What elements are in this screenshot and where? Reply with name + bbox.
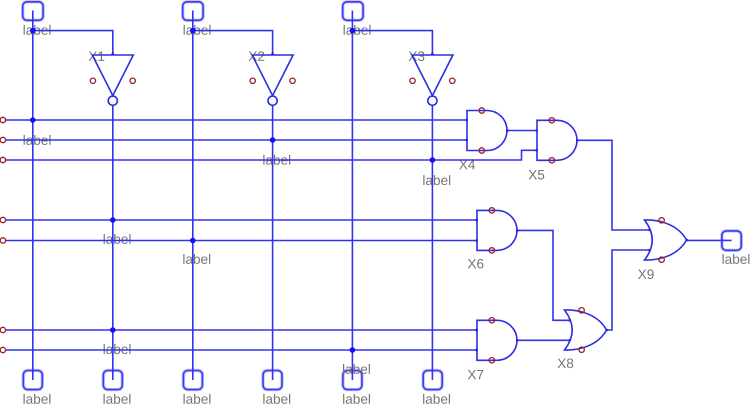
left input port circle row 3 <box>0 157 5 162</box>
pin nub X6 out <box>516 229 519 232</box>
AND gate X6 <box>477 208 517 253</box>
wire row 5 to X6 input B <box>5 240 477 242</box>
wire rail X2 output to bottom square 4 <box>272 106 274 381</box>
label text rail3 net <box>343 364 370 374</box>
junction node row4-X1out <box>110 217 116 223</box>
OR gate X8 <box>565 308 607 353</box>
pin nub X5 in A <box>535 129 538 132</box>
wire rail X3 output to bottom square 6 <box>431 106 433 381</box>
output pin square bottom 5 <box>343 371 362 390</box>
junction node row1-rail1 <box>30 117 36 123</box>
designator X4 <box>459 160 475 169</box>
input pin square top 3 <box>343 2 363 21</box>
left input port circle row 5 <box>0 238 5 243</box>
left input port circle row 6 <box>0 327 5 332</box>
wire rail X1 output to bottom square 2 <box>112 106 114 381</box>
label text row 7 net <box>104 344 131 354</box>
wire row 3 jog to X5 input B <box>5 150 537 160</box>
pin nub X5 in B <box>535 149 538 152</box>
input pin square top 1 <box>23 2 43 21</box>
pin nub X6 in A <box>475 219 478 222</box>
pin nub X9 in A <box>648 229 651 232</box>
pin nub X7 out <box>516 339 519 342</box>
pin nub X8 in A <box>568 319 571 322</box>
designator X9 <box>638 269 654 279</box>
output pin square bottom 1 <box>23 371 42 390</box>
pin nub X8 out <box>606 329 609 332</box>
inverter X1 <box>90 55 135 105</box>
label text bottom pin 2 <box>104 394 131 404</box>
pin nub X5 out <box>576 139 579 142</box>
pin nub X3 in <box>431 53 434 56</box>
designator X5 <box>529 170 545 179</box>
junction node top branch 3 <box>350 28 356 34</box>
pin nub X6 in B <box>475 239 478 242</box>
input pin square top 2 <box>183 2 203 21</box>
pin nub X4 in A <box>465 119 468 122</box>
label text top pin 1 <box>24 25 51 35</box>
wire X5 output to X9 input A <box>577 140 650 230</box>
label text output pin right <box>723 254 750 264</box>
junction node row6-X1out <box>110 327 116 333</box>
label text bottom pin 3 <box>184 394 211 404</box>
wire row 7 to X7 input B <box>5 349 477 351</box>
pin nub X2 in <box>271 53 274 56</box>
designator X1 <box>89 52 105 61</box>
output pin square bottom 6 <box>423 371 442 390</box>
junction node row7-rail3 <box>350 347 356 353</box>
wire row 1 to X4 input A <box>5 119 467 121</box>
label text row 3 net <box>263 155 290 165</box>
wire row 6 to X7 input A <box>5 329 477 331</box>
wire X6 output to X8 input A <box>517 230 570 320</box>
junction node row3-X3out <box>430 157 436 163</box>
label text bottom pin 5 <box>343 394 370 404</box>
junction node row2-X2out <box>270 137 276 143</box>
left input port circle row 7 <box>0 347 5 352</box>
AND gate X7 <box>477 318 517 363</box>
left input port circle row 2 <box>0 137 5 142</box>
junction node row5-rail2 <box>190 238 196 244</box>
left input port circle row 4 <box>0 217 5 222</box>
pin nub X9 out <box>686 239 689 242</box>
label text row 2 net <box>24 135 51 145</box>
wire rail from top pin 2 to bottom square 3 <box>192 11 194 381</box>
output pin square bottom 3 <box>183 371 202 390</box>
pin nub X1 in <box>112 53 115 56</box>
label text rail2 net <box>183 254 210 264</box>
label text top pin 3 <box>344 25 371 35</box>
wire row 2 to X4 input B <box>5 139 467 141</box>
designator X8 <box>558 359 574 369</box>
label text bottom pin 1 <box>24 394 51 404</box>
inverter X2 <box>250 55 295 105</box>
label text X1 net <box>104 234 131 244</box>
wire branch to inverter X1 input <box>33 31 113 55</box>
output pin square right <box>722 231 741 250</box>
pin nub X9 in B <box>648 249 651 252</box>
output pin square bottom 2 <box>103 371 122 390</box>
output pin square bottom 4 <box>263 371 282 390</box>
wire rail from top pin 1 to bottom square 1 <box>32 11 34 381</box>
wire branch to inverter X2 input <box>193 31 273 55</box>
junction node top branch 1 <box>30 28 36 34</box>
designator X2 <box>249 51 265 61</box>
wire X4 output to X5 input A <box>507 130 537 132</box>
wire X9 output to output pin <box>687 239 732 241</box>
label text bottom pin 4 <box>263 394 290 404</box>
inverter X3 <box>410 55 455 105</box>
wire rail from top pin 3 to bottom square 5 <box>351 11 353 381</box>
AND gate X5 <box>537 118 577 163</box>
designator X7 <box>468 370 484 379</box>
label text top pin 2 <box>184 25 211 35</box>
designator X3 <box>409 51 425 61</box>
label text X3 net <box>423 175 450 185</box>
left input port circle row 1 <box>0 117 5 122</box>
wire row 4 to X6 input A <box>5 219 477 221</box>
wire X7 output to X8 input B <box>517 339 570 341</box>
pin nub X8 in B <box>568 339 571 342</box>
wire branch to inverter X3 input <box>352 31 432 55</box>
label text bottom pin 6 <box>423 394 450 404</box>
pin nub X7 in A <box>475 329 478 332</box>
pin nub X4 in B <box>465 139 468 142</box>
junction node top branch 2 <box>190 28 196 34</box>
OR gate X9 <box>645 218 687 263</box>
wire X8 output to X9 input B <box>607 250 651 330</box>
designator X6 <box>468 259 484 269</box>
AND gate X4 <box>467 108 507 153</box>
pin nub X4 out <box>506 129 509 132</box>
pin nub X7 in B <box>475 349 478 352</box>
